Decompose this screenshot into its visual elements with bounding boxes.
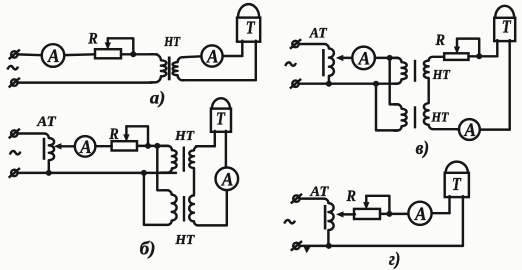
transformer HT1 core (168, 57, 171, 81)
AC source ~ (circuit g) (284, 220, 295, 224)
ammeter A3 (75, 136, 96, 157)
svg-text:Т: Т (246, 18, 256, 38)
wire: R3 to thermo device T3 (469, 55, 498, 57)
transformer HT5 core (414, 106, 416, 128)
svg-text:R: R (435, 32, 446, 49)
AC source ~ (circuit v) (285, 62, 296, 66)
junction dot AT bottom (circuit g) (326, 243, 332, 249)
rheostat R3 (444, 53, 468, 60)
ammeter A7 (408, 202, 431, 225)
wire: A3 to rheostat R2 (95, 145, 111, 147)
transformer HT4 secondary winding (series to HT5 secondary) (424, 57, 459, 129)
ammeter A5 (352, 47, 375, 70)
arrow on bottom wire (circuit g) (303, 246, 310, 253)
svg-text:Т: Т (502, 16, 512, 36)
transformer HT5 primary winding (394, 104, 407, 130)
svg-text:А: А (464, 120, 476, 141)
thermo device T2 (214, 131, 216, 146)
wire: R2 to HT2 primary (137, 145, 168, 147)
svg-text:в): в) (416, 139, 430, 159)
transformer HT4 primary winding (394, 58, 407, 84)
ammeter A6 (459, 119, 480, 140)
input terminal bottom (circuit a) (11, 79, 17, 85)
junction dot A5 output (circuit v) (387, 55, 393, 61)
junction dot (R1 wiper tap) (130, 51, 136, 57)
wire: down to HT5 primary bottom (376, 84, 398, 131)
AC source ~ (circuit a) (7, 66, 18, 70)
ammeter A1 (42, 44, 65, 67)
input terminal top (circuit a) (11, 51, 17, 57)
input terminal bottom (circuit b) (11, 170, 17, 176)
AT tap arrow from rheostat R4 (341, 213, 356, 215)
transformer HT2 core (183, 147, 185, 172)
thermo device T1 (241, 41, 243, 56)
rheostat R4 (354, 209, 380, 219)
autotransformer AT winding (circuit b) (18, 134, 55, 174)
transformer HT3 core (183, 196, 185, 222)
AC source ~ (circuit b) (10, 151, 21, 155)
thermo device T3 (496, 40, 498, 56)
ammeter A2 (201, 45, 222, 66)
svg-text:Т: Т (216, 108, 226, 128)
junction dot AT bottom (circuit v) (326, 81, 332, 87)
junction dot bottom wire (circuit b) (141, 170, 147, 176)
svg-text:А: А (206, 47, 218, 68)
wire: R4 to ammeter A7 (380, 213, 408, 215)
transformer HT2 primary winding (161, 146, 177, 173)
wire: A5 to HT4 primary (375, 57, 398, 59)
wire: bottom return (circuit g) (300, 245, 463, 247)
input terminal bottom (circuit g) (293, 243, 299, 249)
svg-text:НТ: НТ (174, 233, 195, 248)
svg-text:R: R (108, 126, 119, 143)
input terminal top (circuit b) (11, 130, 17, 136)
wire: T2 left leg to HT2 secondary (196, 145, 215, 147)
wire: R1 to transformer HT1 primary (121, 53, 157, 55)
svg-text:б): б) (140, 239, 156, 259)
junction dot R4 wiper (circuit g) (386, 211, 392, 217)
svg-text:г): г) (389, 250, 401, 270)
wire: bottom return (circuit v) (299, 82, 398, 84)
svg-text:А: А (358, 49, 370, 70)
junction dot bottom wire (circuit v) (373, 81, 379, 87)
rheostat R1 (95, 49, 121, 58)
autotransformer AT core (circuit b) (43, 138, 46, 160)
svg-text:НТ: НТ (432, 67, 451, 82)
input terminal top (circuit g) (293, 195, 299, 201)
svg-text:НТ: НТ (163, 35, 181, 50)
wire: HT3 secondary to ammeter A4 (226, 190, 228, 225)
AT tap arrow to ammeter A3 (58, 145, 75, 147)
svg-text:R: R (87, 31, 98, 48)
junction dot wiper (circuit b) (145, 143, 151, 149)
svg-text:НТ: НТ (431, 109, 450, 124)
transformer HT4 core (414, 60, 416, 82)
rheostat R2 (112, 141, 137, 150)
wire: bottom return (circuit b) (18, 172, 177, 174)
autotransformer AT core (circuit v) (322, 49, 325, 76)
input terminal bottom (circuit v) (292, 81, 298, 87)
svg-text:НТ: НТ (174, 129, 195, 144)
autotransformer AT core (circuit g) (324, 205, 327, 230)
wire: top wire down to HT3 primary (157, 146, 168, 190)
svg-text:Т: Т (452, 174, 462, 194)
wire: down to HT5 primary top (390, 58, 398, 105)
svg-text:R: R (346, 188, 357, 205)
transformer HT1 primary winding (150, 54, 166, 82)
svg-text:АТ: АТ (309, 184, 329, 200)
junction dot to lower primary (circuit b) (154, 143, 160, 149)
transformer HT3 primary winding (145, 190, 177, 225)
wire: A7 to thermo device T4 (432, 212, 450, 214)
wire: HT1 secondary to ammeter A2 (183, 55, 201, 58)
junction dot AT bottom (circuit b) (46, 170, 52, 176)
svg-text:А: А (47, 46, 59, 67)
wire: top terminal to ammeter A1 (18, 53, 42, 56)
transformer HT2 secondary winding (series to HT3 secondary) (189, 146, 227, 225)
wire: A2 to thermo device T1 (223, 55, 243, 57)
input terminal top (circuit v) (292, 41, 298, 47)
svg-text:А: А (79, 137, 91, 158)
svg-text:АТ: АТ (309, 26, 328, 42)
wire: HT1 secondary bottom to T1 right leg (183, 79, 256, 81)
wire: HT5 secondary to ammeter A6 (457, 128, 459, 130)
ammeter A4 (216, 168, 239, 191)
svg-text:А: А (221, 169, 233, 190)
transformer HT1 secondary winding (173, 57, 184, 80)
autotransformer AT winding (circuit g) (300, 199, 334, 246)
svg-text:АТ: АТ (36, 114, 57, 130)
svg-text:а): а) (150, 87, 166, 108)
wire: A6 to T3 right leg (480, 128, 510, 130)
AT tap arrow to ammeter A5 (340, 57, 352, 59)
junction dot R3 wiper (circuit v) (476, 53, 482, 59)
wire: bottom wire down to HT3 primary bottom (143, 173, 145, 225)
svg-text:А: А (414, 204, 426, 225)
wire: A1 to rheostat R1 (64, 53, 95, 56)
wire: bottom return (circuit a) (18, 81, 153, 83)
autotransformer AT winding (circuit v) (299, 44, 334, 84)
thermo device T4 (448, 196, 450, 213)
